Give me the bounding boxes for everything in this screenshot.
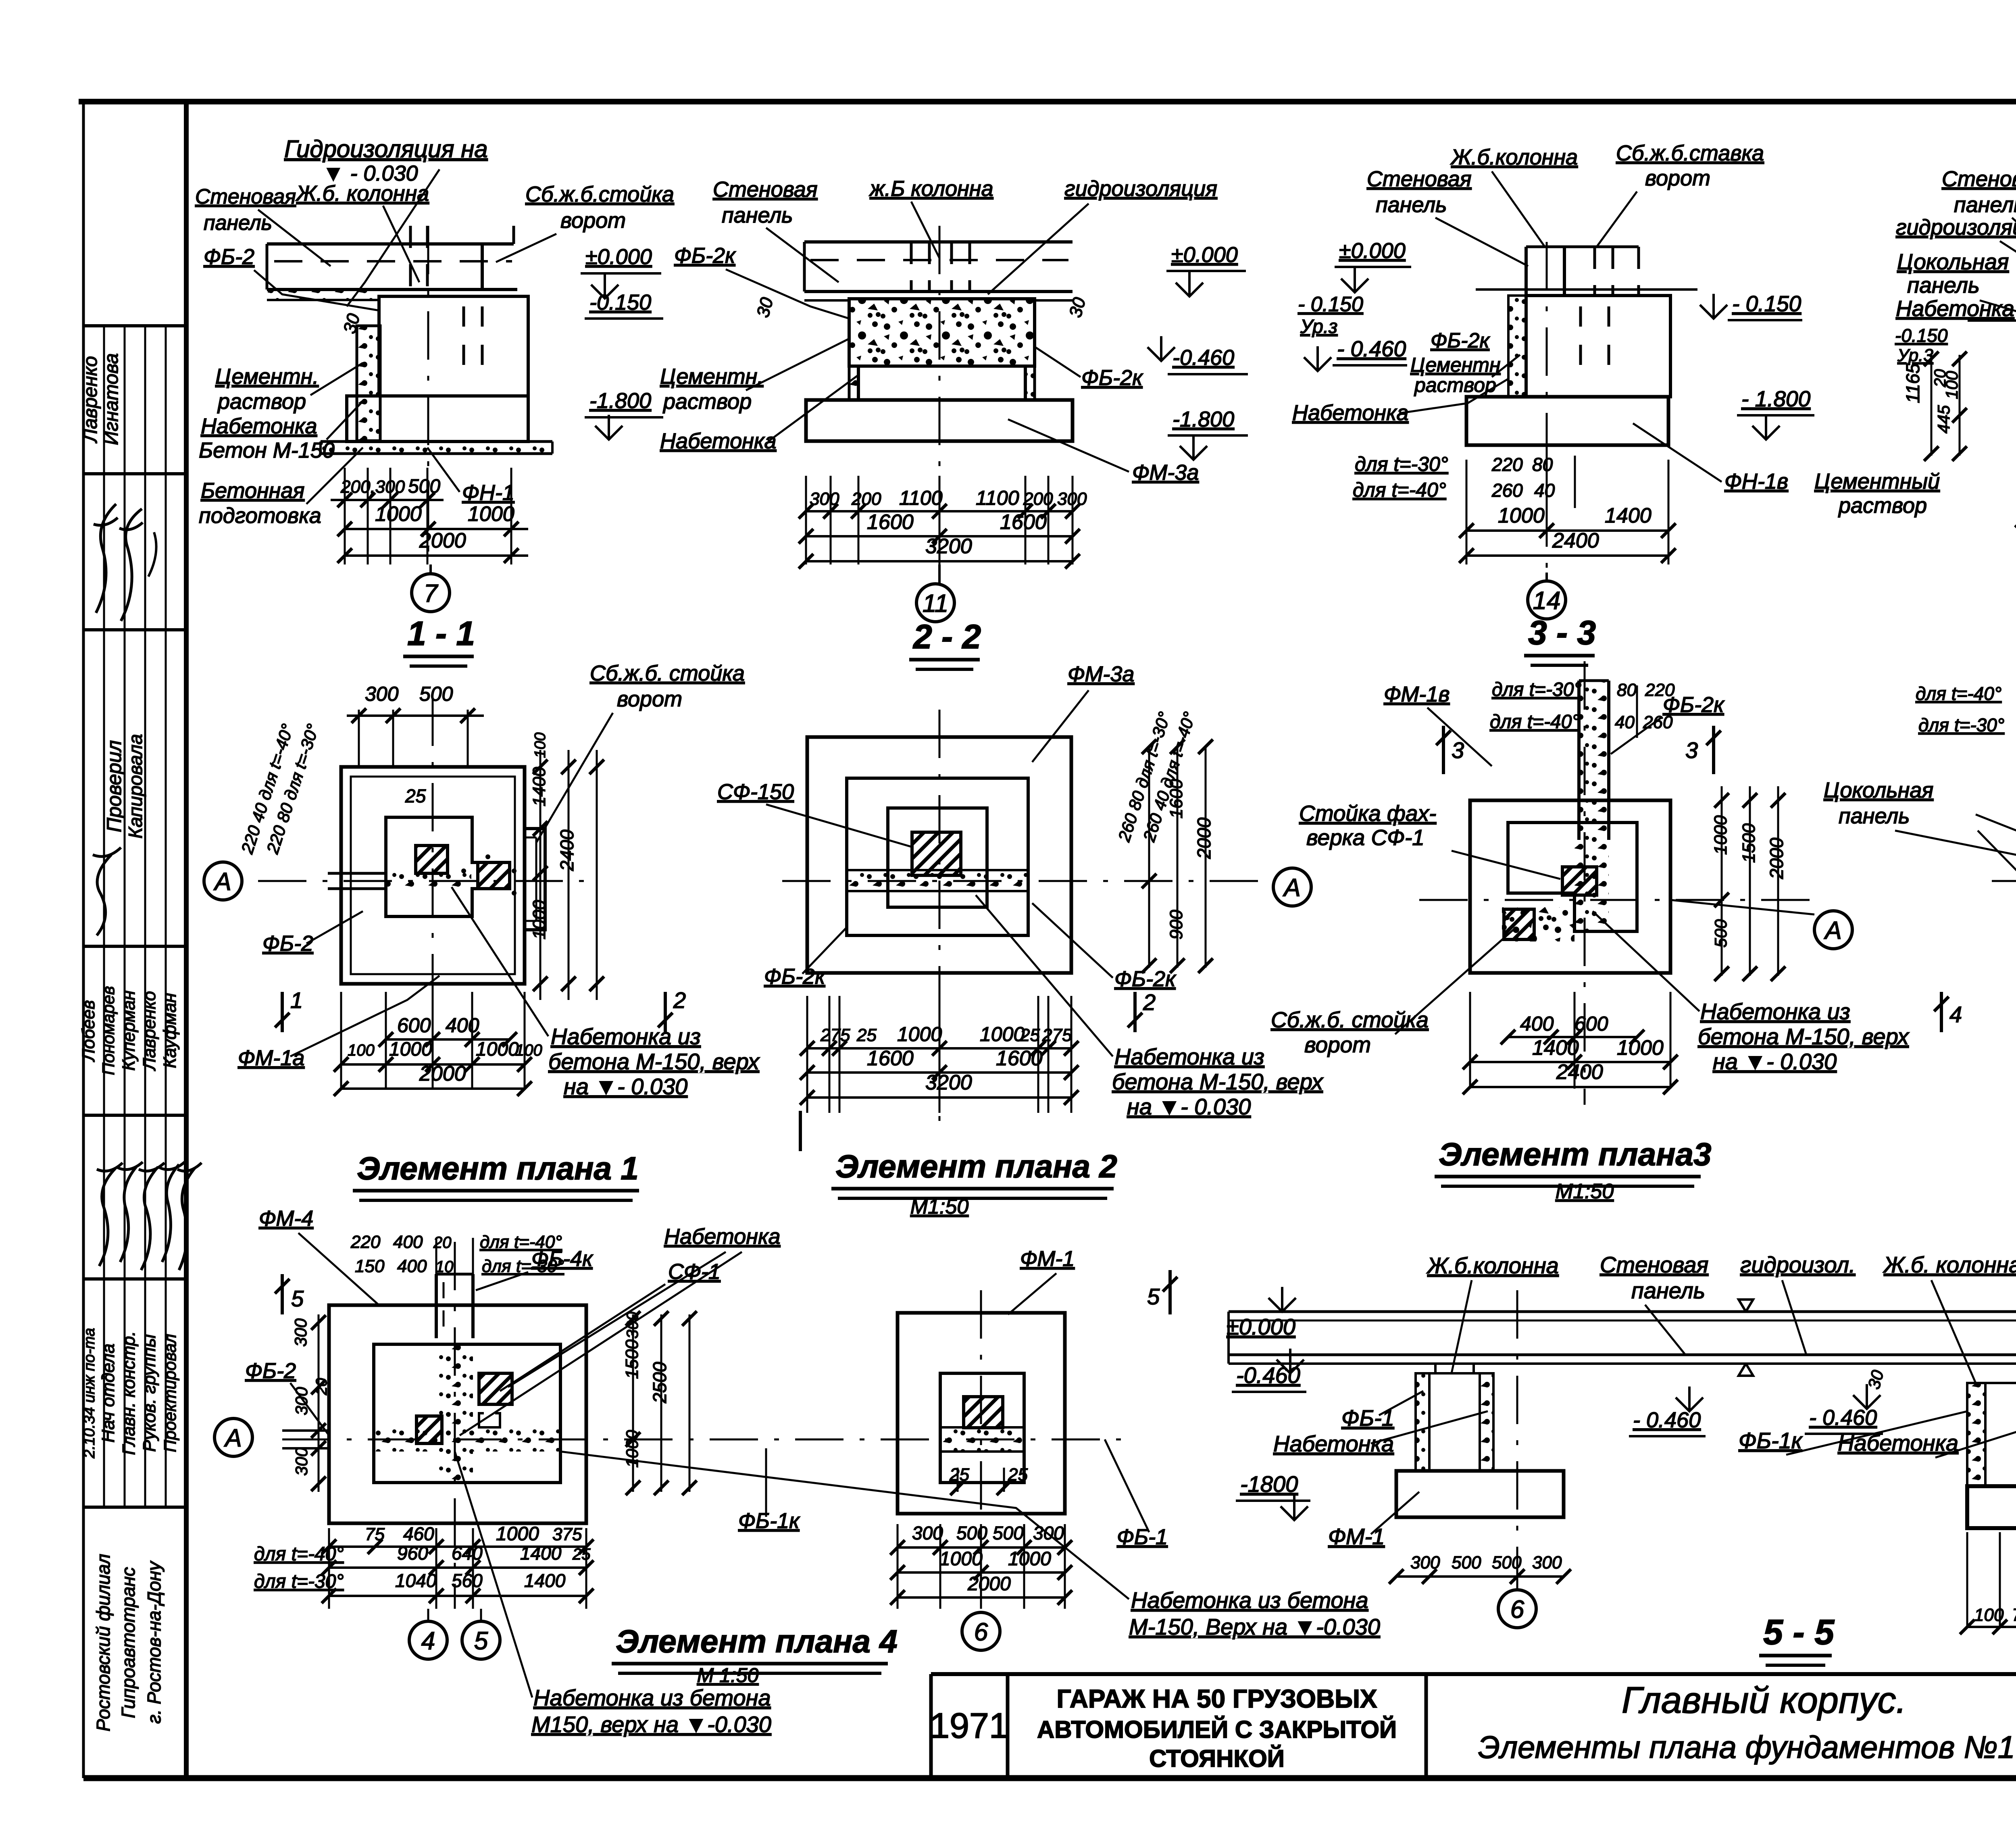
svg-text:300: 300 [291,1318,310,1347]
svg-text:панель: панель [1376,193,1447,217]
svg-text:ФБ-1: ФБ-1 [1341,1405,1394,1431]
svg-text:ФМ-1: ФМ-1 [1020,1247,1075,1271]
svg-text:Сб.ж.б. стойка: Сб.ж.б. стойка [590,661,745,685]
svg-text:1400: 1400 [529,767,549,806]
svg-text:1971: 1971 [930,1706,1009,1745]
svg-text:ФБ-2: ФБ-2 [245,1359,296,1383]
svg-text:6: 6 [1510,1595,1524,1623]
svg-text:Набетонка из: Набетонка из [551,1024,701,1049]
svg-text:300: 300 [292,1387,311,1415]
svg-text:5: 5 [474,1627,488,1655]
svg-text:1400: 1400 [1532,1036,1579,1060]
svg-text:Набетонка: Набетонка [1838,1430,1958,1456]
svg-text:80: 80 [1532,454,1553,475]
svg-text:Стойка фах-: Стойка фах- [1299,801,1436,826]
svg-text:1000: 1000 [1617,1036,1664,1060]
svg-text:1400: 1400 [524,1570,566,1591]
svg-text:14: 14 [1533,587,1561,614]
svg-text:СФ-1: СФ-1 [668,1260,721,1284]
svg-text:для t=-30°: для t=-30° [1355,453,1448,475]
svg-text:Главн. констр.: Главн. констр. [119,1331,139,1455]
svg-text:Цокольная: Цокольная [1824,778,1933,802]
svg-text:1000: 1000 [1008,1548,1051,1570]
svg-text:Цокольная: Цокольная [1897,249,2009,274]
svg-text:Проектировал: Проектировал [160,1334,179,1452]
svg-text:900: 900 [1166,910,1186,939]
svg-text:ФБ-2к: ФБ-2к [1431,329,1490,352]
svg-text:ФБ-2: ФБ-2 [204,245,254,269]
svg-text:ФБ-2к: ФБ-2к [1663,693,1725,717]
svg-text:2400: 2400 [556,829,577,871]
svg-text:для t=-40°: для t=-40° [1490,711,1580,733]
svg-text:гидроизоляция: гидроизоляция [1064,177,1217,201]
svg-text:Стеновая: Стеновая [1942,167,2016,191]
svg-text:Набетонка: Набетонка [664,1225,780,1249]
svg-text:2.10.34 инж по-та: 2.10.34 инж по-та [81,1328,98,1458]
svg-text:±0.000: ±0.000 [585,245,652,269]
svg-text:±0.000: ±0.000 [1227,1314,1295,1339]
svg-text:1165: 1165 [1902,363,1923,403]
svg-text:1000: 1000 [1711,815,1731,855]
svg-text:-1.800: -1.800 [589,389,651,413]
svg-text:М 1:50: М 1:50 [697,1664,759,1687]
svg-text:-0.150: -0.150 [589,290,651,314]
svg-text:500: 500 [1452,1553,1481,1572]
svg-text:на ▼- 0.030: на ▼- 0.030 [1713,1049,1837,1074]
svg-text:панель: панель [1907,273,1980,298]
svg-text:ФБ-2к: ФБ-2к [1114,967,1177,991]
svg-text:А: А [213,868,231,896]
svg-text:ФН-1в: ФН-1в [1724,469,1788,494]
svg-text:400: 400 [1520,1012,1554,1035]
svg-text:Цементн.: Цементн. [215,364,319,389]
svg-text:3: 3 [1452,737,1464,763]
svg-text:2000: 2000 [967,1573,1011,1595]
svg-text:-1.800: -1.800 [1173,407,1234,431]
svg-text:500: 500 [993,1522,1024,1543]
svg-text:бетона М-150, верх: бетона М-150, верх [548,1049,760,1074]
svg-text:20: 20 [313,1378,330,1395]
svg-text:1000: 1000 [939,1548,983,1570]
svg-text:ж.Б колонна: ж.Б колонна [869,177,993,201]
svg-text:для t=-40°: для t=-40° [1916,683,2001,704]
svg-text:1500: 1500 [1739,823,1759,863]
svg-text:М1:50: М1:50 [1556,1180,1614,1203]
svg-text:бетона М-150, верх: бетона М-150, верх [1112,1069,1324,1094]
svg-text:Стеновая: Стеновая [195,185,296,208]
svg-text:-0.150: -0.150 [1895,325,1948,346]
svg-text:4: 4 [1949,1002,1962,1027]
svg-text:- 1.800: - 1.800 [1741,386,1811,411]
svg-text:ворот: ворот [617,687,682,711]
svg-text:1000: 1000 [375,502,422,526]
svg-text:Нач отдела: Нач отдела [98,1343,118,1443]
svg-text:11: 11 [923,589,948,617]
svg-text:Стеновая: Стеновая [1600,1252,1708,1277]
svg-text:ФБ-2: ФБ-2 [262,931,313,956]
svg-text:Стеновая: Стеновая [713,177,818,202]
svg-text:Элемент плана 4: Элемент плана 4 [616,1623,898,1659]
svg-text:300: 300 [1532,1553,1562,1572]
svg-text:на ▼- 0.030: на ▼- 0.030 [1127,1094,1251,1119]
svg-text:±0.000: ±0.000 [1171,243,1238,267]
svg-text:ФМ-1: ФМ-1 [1328,1524,1385,1549]
svg-text:2000: 2000 [1193,817,1214,859]
svg-text:ГАРАЖ НА 50 ГРУЗОВЫХ: ГАРАЖ НА 50 ГРУЗОВЫХ [1056,1684,1377,1713]
svg-text:- 0.150: - 0.150 [1732,291,1801,316]
svg-text:445: 445 [1934,405,1953,433]
svg-text:40: 40 [1534,480,1555,501]
svg-text:300: 300 [292,1447,311,1476]
svg-text:400: 400 [397,1256,427,1276]
svg-text:Цементн: Цементн [1410,354,1500,376]
svg-text:для t=-30°: для t=-30° [1492,679,1582,700]
svg-text:Сб.ж.б. стойка: Сб.ж.б. стойка [1271,1007,1429,1032]
svg-text:1000: 1000 [476,1039,519,1060]
svg-text:Лавренко: Лавренко [80,356,101,444]
svg-text:1: 1 [290,987,303,1013]
svg-text:2400: 2400 [1556,1060,1603,1084]
svg-text:ФМ-3а: ФМ-3а [1068,662,1134,686]
svg-text:А: А [223,1424,242,1452]
svg-text:Руков. группы: Руков. группы [140,1334,159,1452]
svg-text:1600: 1600 [1166,779,1186,818]
svg-text:панель: панель [1839,804,1910,828]
svg-text:±0.000: ±0.000 [1339,239,1406,263]
svg-text:ФМ-1а: ФМ-1а [238,1046,304,1070]
svg-text:ФМ-3а: ФМ-3а [1132,460,1199,485]
svg-text:100: 100 [1942,371,1961,399]
svg-text:Главный корпус.: Главный корпус. [1622,1680,1906,1721]
svg-text:220: 220 [1491,454,1523,475]
svg-text:220: 220 [350,1232,381,1252]
svg-text:Проверил: Проверил [103,740,125,832]
svg-text:1100: 1100 [899,487,943,509]
svg-text:1500: 1500 [622,1339,642,1379]
svg-text:Гипроавтотранс: Гипроавтотранс [118,1567,139,1718]
svg-text:1040: 1040 [395,1570,437,1591]
svg-text:375: 375 [552,1525,582,1544]
svg-text:Гидроизоляция на: Гидроизоляция на [284,135,488,162]
svg-text:1400: 1400 [520,1543,562,1564]
svg-text:1600: 1600 [1000,510,1047,534]
svg-text:25: 25 [949,1465,969,1485]
svg-text:25: 25 [1020,1025,1040,1045]
svg-text:6: 6 [974,1618,988,1646]
svg-text:Ростовский филиал: Ростовский филиал [93,1554,114,1731]
svg-text:300: 300 [365,683,399,705]
svg-text:ворот: ворот [1304,1032,1371,1057]
svg-text:2: 2 [673,987,686,1013]
svg-text:-1800: -1800 [1240,1471,1298,1497]
svg-text:бетона М-150, верх: бетона М-150, верх [1698,1024,1910,1049]
svg-text:5 - 5: 5 - 5 [1763,1612,1835,1652]
svg-text:Элемент плана 1: Элемент плана 1 [357,1150,639,1186]
svg-text:Лавренко: Лавренко [140,991,159,1071]
svg-text:Сб.ж.б.ставка: Сб.ж.б.ставка [1616,141,1764,165]
svg-text:подготовка: подготовка [199,504,321,528]
svg-text:80: 80 [1617,680,1637,700]
svg-text:Лобеев: Лобеев [79,1000,98,1062]
svg-text:АВТОМОБИЛЕЙ С ЗАКРЫТОЙ: АВТОМОБИЛЕЙ С ЗАКРЫТОЙ [1037,1716,1397,1743]
svg-text:М-150, Верх на ▼-0.030: М-150, Верх на ▼-0.030 [1129,1614,1380,1639]
svg-text:Элемент плана 2: Элемент плана 2 [835,1148,1117,1184]
svg-text:5: 5 [291,1286,304,1311]
svg-text:- 0.150: - 0.150 [1298,293,1363,316]
svg-text:М1:50: М1:50 [910,1195,969,1218]
svg-text:2500: 2500 [649,1362,670,1404]
svg-text:1100: 1100 [976,487,1019,509]
svg-text:раствор: раствор [662,389,752,414]
svg-text:панель: панель [1954,193,2016,217]
svg-text:3: 3 [1685,737,1698,763]
svg-text:300: 300 [912,1522,943,1543]
svg-text:Набетонка из бетона: Набетонка из бетона [1131,1587,1368,1613]
svg-text:Набетонка из бетона: Набетонка из бетона [533,1685,771,1710]
svg-text:560: 560 [452,1570,483,1591]
svg-text:ФН-1: ФН-1 [462,481,514,505]
svg-text:на ▼- 0.030: на ▼- 0.030 [564,1074,687,1099]
svg-text:5: 5 [1147,1284,1160,1309]
svg-text:-0.460: -0.460 [1173,346,1234,370]
svg-text:2000: 2000 [419,529,466,552]
svg-text:40: 40 [1615,712,1635,732]
svg-text:500: 500 [956,1522,987,1543]
svg-text:1000: 1000 [897,1023,942,1046]
svg-text:гидроизоляц.: гидроизоляц. [1896,215,2016,240]
svg-text:100: 100 [348,1041,375,1059]
svg-text:200: 200 [851,489,881,509]
svg-text:25: 25 [405,785,426,806]
svg-text:1000: 1000 [980,1023,1025,1046]
svg-text:2: 2 [1143,989,1156,1015]
svg-text:раствор: раствор [1838,494,1927,518]
svg-text:ворот: ворот [560,208,626,233]
svg-text:- 0.460: - 0.460 [1337,336,1406,361]
svg-text:300: 300 [624,1312,641,1339]
svg-text:ФБ-2к: ФБ-2к [674,244,736,268]
svg-text:Набетонка: Набетонка [201,414,317,438]
svg-text:1400: 1400 [1605,504,1652,527]
svg-text:г. Ростов-на-Дону: г. Ростов-на-Дону [144,1560,165,1724]
svg-text:панель: панель [204,211,272,235]
svg-text:Куперман: Куперман [119,991,139,1071]
svg-text:гидроизол.: гидроизол. [1740,1252,1856,1277]
svg-text:Элементы плана фундаментов: Элементы плана фундаментов №1÷5 [1478,1729,2016,1765]
svg-text:верка СФ-1: верка СФ-1 [1306,825,1425,850]
svg-text:400: 400 [446,1014,479,1037]
svg-text:1000: 1000 [529,900,549,939]
svg-text:ФБ-1к: ФБ-1к [738,1509,800,1533]
svg-text:700: 700 [2012,1605,2016,1625]
svg-text:ФБ-2к: ФБ-2к [764,964,826,989]
svg-text:460: 460 [403,1523,434,1544]
svg-text:А: А [1823,916,1841,944]
svg-text:Игнатова: Игнатова [101,353,122,445]
svg-text:960: 960 [397,1543,428,1564]
svg-text:260: 260 [1491,480,1523,501]
svg-text:Бетонная: Бетонная [201,479,304,503]
svg-text:панель: панель [722,203,793,227]
svg-text:500: 500 [1711,919,1730,948]
svg-text:25: 25 [856,1025,877,1045]
svg-text:1600: 1600 [867,510,914,534]
svg-text:ФМ-4: ФМ-4 [259,1206,313,1231]
svg-text:1000: 1000 [389,1039,432,1060]
svg-text:Набетонка: Набетонка [1896,296,2014,321]
svg-text:М150, верх на ▼-0.030: М150, верх на ▼-0.030 [531,1712,771,1737]
svg-text:раствор: раствор [217,389,306,414]
svg-text:Набетонка: Набетонка [1273,1431,1394,1456]
svg-text:3 - 3: 3 - 3 [1528,614,1596,652]
svg-text:Капировала: Капировала [125,734,146,838]
svg-text:1000: 1000 [1498,504,1545,527]
svg-text:Ж.б.колонна: Ж.б.колонна [1426,1253,1559,1278]
svg-text:ФБ-2к: ФБ-2к [1081,366,1143,390]
svg-text:2 - 2: 2 - 2 [912,618,981,656]
svg-text:2000: 2000 [1766,837,1787,879]
svg-text:ФБ-1к: ФБ-1к [1739,1428,1803,1453]
svg-text:для t=-40°: для t=-40° [1353,479,1446,501]
svg-text:Пономарев: Пономарев [99,986,118,1075]
svg-text:3200: 3200 [925,535,972,558]
svg-text:1000: 1000 [496,1523,539,1545]
svg-text:600: 600 [397,1014,431,1037]
svg-text:Бетон М-150: Бетон М-150 [199,438,335,462]
svg-text:4: 4 [421,1627,435,1655]
svg-text:1600: 1600 [996,1047,1043,1070]
svg-text:1600: 1600 [867,1047,914,1070]
svg-text:2400: 2400 [1552,529,1599,552]
svg-text:ФБ-4к: ФБ-4к [531,1247,594,1271]
svg-text:для t=-30°: для t=-30° [254,1571,344,1592]
svg-text:1000: 1000 [468,502,514,526]
svg-text:Набетонка из: Набетонка из [1114,1044,1264,1069]
svg-text:панель: панель [1631,1278,1705,1303]
svg-text:400: 400 [393,1232,423,1252]
svg-text:Цементн.: Цементн. [660,364,763,389]
svg-text:3200: 3200 [925,1071,972,1094]
svg-text:7: 7 [424,579,439,607]
svg-text:СФ-150: СФ-150 [717,780,794,804]
svg-text:150: 150 [355,1256,385,1276]
svg-text:500: 500 [419,683,453,705]
svg-text:для t=-40°: для t=-40° [254,1543,344,1565]
svg-text:25: 25 [572,1545,591,1563]
svg-text:Набетонка из: Набетонка из [1700,999,1850,1024]
svg-text:ФМ-1в: ФМ-1в [1384,682,1450,706]
svg-text:Ж.б. колонна: Ж.б. колонна [1883,1252,2016,1277]
svg-text:500: 500 [1492,1553,1522,1572]
svg-text:2000: 2000 [419,1062,466,1085]
svg-text:Цементный: Цементный [1814,469,1940,494]
svg-text:Ж.б. колонна: Ж.б. колонна [295,181,429,206]
svg-text:100: 100 [532,733,549,758]
svg-text:Набетонка: Набетонка [1292,401,1408,425]
svg-text:Ж.б.колонна: Ж.б.колонна [1450,145,1578,169]
svg-text:ФБ-1: ФБ-1 [1117,1525,1168,1549]
svg-text:100: 100 [515,1041,542,1059]
svg-text:Кауфман: Кауфман [160,993,180,1068]
svg-text:Сб.ж.б.стойка: Сб.ж.б.стойка [525,182,674,206]
svg-text:10: 10 [435,1258,454,1276]
svg-text:СТОЯНКОЙ: СТОЯНКОЙ [1149,1745,1285,1772]
svg-text:Элемент плана3: Элемент плана3 [1439,1136,1711,1172]
svg-text:Ур.з: Ур.з [1300,316,1337,337]
svg-text:для t=-30°: для t=-30° [1918,714,2004,735]
svg-text:Набетонка: Набетонка [660,429,776,453]
svg-text:А: А [1282,874,1300,902]
svg-text:Стеновая: Стеновая [1367,167,1472,191]
svg-text:1 - 1: 1 - 1 [407,614,475,652]
svg-text:ворот: ворот [1645,166,1710,190]
